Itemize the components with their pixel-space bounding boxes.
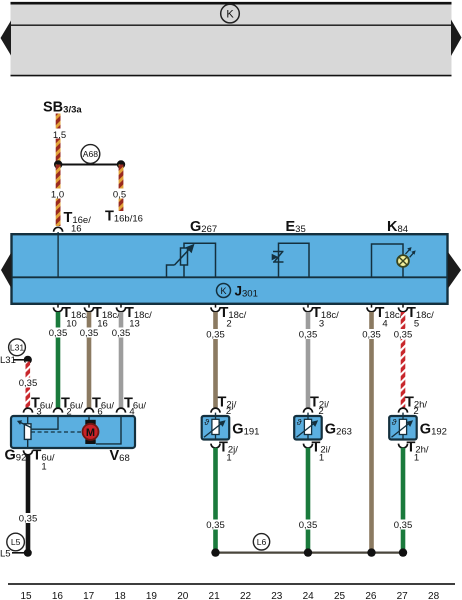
svg-text:0,35: 0,35: [299, 520, 318, 531]
svg-text:0,35: 0,35: [112, 328, 131, 339]
svg-text:ϑ: ϑ: [204, 417, 209, 427]
svg-text:0,35: 0,35: [206, 520, 225, 531]
svg-text:23: 23: [271, 591, 283, 600]
wire red/white L31 to T6u/3: [26, 362, 31, 409]
wire label 0,35 (track21): [205, 329, 227, 341]
svg-text:1: 1: [319, 453, 324, 464]
svg-text:L5: L5: [0, 549, 11, 560]
wire gray T18c/13 to T6u/4: [119, 312, 124, 408]
wire brown T18c/4 to bus L6: [369, 312, 374, 551]
connection L6: [253, 534, 269, 550]
svg-text:26: 26: [365, 591, 377, 600]
svg-text:22: 22: [240, 591, 252, 600]
svg-text:0,35: 0,35: [299, 330, 318, 341]
svg-text:0,35: 0,35: [206, 330, 225, 341]
junction dot right: [117, 160, 125, 168]
sensor G192: [389, 395, 447, 464]
connector arc at J301 top pin 16: [54, 227, 63, 232]
wire brown T18c/2 to G191: [213, 312, 218, 408]
svg-text:25: 25: [334, 591, 346, 600]
connector A68: [81, 145, 100, 164]
wire label 1,0: [49, 189, 66, 201]
right arrow (J301 band): [448, 252, 461, 289]
motor V68: [83, 420, 99, 444]
wire gray T18c/3 to G263: [306, 312, 311, 408]
track scale line: [8, 583, 455, 585]
svg-text:L5: L5: [11, 537, 21, 547]
wire black T6u/1 to L5: [26, 455, 31, 551]
svg-text:K: K: [226, 9, 234, 21]
pin T18c/13: [117, 304, 153, 330]
wire SB3/3a red/yellow: [56, 114, 61, 164]
pin T18c/10: [54, 304, 90, 330]
ECU band J301: [12, 234, 448, 304]
pin T18c/5: [399, 304, 435, 330]
node K (top band reference): [221, 4, 240, 23]
G267 wiper arrowhead: [186, 244, 195, 254]
wire label 0,35 (track16): [47, 328, 69, 340]
svg-text:20: 20: [177, 591, 189, 600]
svg-text:0,35: 0,35: [394, 330, 413, 341]
track numbers: [20, 591, 439, 600]
wire label 0,35 (track15 lower): [17, 513, 39, 525]
svg-text:M: M: [86, 427, 95, 439]
wire horizontal to A68: [58, 164, 121, 166]
wire label 0,35 (track24 lower): [297, 520, 319, 532]
pin T18c/3: [304, 304, 340, 330]
junction dot left: [54, 160, 62, 168]
warning lamp K84 symbol: [372, 244, 404, 277]
svg-text:L6: L6: [257, 537, 267, 547]
wire red/white T18c/5 to G192: [401, 312, 406, 408]
wire label 0,5: [111, 189, 128, 201]
wire label 0,35 (track27): [392, 329, 414, 341]
svg-text:ϑ: ϑ: [392, 417, 397, 427]
pin T6u/1 arc: [24, 450, 33, 455]
wire green G191 to L6: [213, 448, 218, 551]
potentiometer G267 symbol: [167, 243, 216, 277]
svg-text:0,35: 0,35: [394, 520, 413, 531]
sensor G191: [202, 395, 260, 464]
connection L31: [9, 339, 26, 356]
svg-text:A68: A68: [83, 149, 99, 159]
wire green G192 to L6: [401, 448, 406, 551]
svg-text:L31: L31: [10, 342, 25, 352]
wire brown T18c/16 to T6u/6: [87, 312, 92, 408]
wire stub L31 to junction: [13, 359, 25, 361]
junction dot L31: [24, 356, 32, 364]
svg-text:0,35: 0,35: [80, 328, 99, 339]
junction dot track26: [367, 548, 375, 556]
svg-text:0,35: 0,35: [49, 328, 68, 339]
wire stub L5: [12, 552, 25, 554]
svg-text:1: 1: [414, 453, 419, 464]
svg-text:27: 27: [397, 591, 409, 600]
svg-text:3: 3: [319, 319, 324, 330]
positioning motor unit V68 box: [11, 416, 135, 448]
wire label 0,35 (track24): [297, 329, 319, 341]
wire inside band from pin 16: [57, 232, 59, 277]
junction dot track21: [211, 548, 219, 556]
junction dot track27: [399, 548, 407, 556]
junction dot track24: [304, 548, 312, 556]
svg-text:21: 21: [209, 591, 221, 600]
svg-text:1,5: 1,5: [53, 130, 66, 141]
node K J301 label: [217, 283, 258, 299]
lamp K84: [397, 247, 416, 267]
wiper feed wire from T6u/2: [31, 416, 58, 429]
svg-text:24: 24: [303, 591, 315, 600]
svg-text:18: 18: [115, 591, 127, 600]
right arrow (top band): [451, 20, 462, 57]
left arrow (top band): [1, 21, 12, 56]
svg-text:17: 17: [83, 591, 95, 600]
potentiometer G92: [17, 416, 31, 448]
svg-text:ϑ: ϑ: [297, 417, 302, 427]
svg-text:1,0: 1,0: [51, 190, 64, 201]
wire label 0,35 (track26): [361, 329, 383, 341]
wire label 0,35 (track15 upper): [17, 378, 39, 390]
svg-text:0,35: 0,35: [19, 378, 38, 389]
svg-text:1: 1: [41, 462, 46, 473]
wire label 0,35 (track18): [110, 328, 132, 340]
svg-text:4: 4: [382, 319, 387, 330]
wire 1,0 red/yellow to T16e: [56, 165, 61, 227]
sensor E35 symbol: [279, 243, 310, 277]
wire green G263 to L6: [306, 448, 311, 551]
pin T18c/16: [85, 304, 121, 330]
svg-text:28: 28: [428, 591, 440, 600]
svg-text:0,5: 0,5: [113, 190, 126, 201]
ground L5: [7, 533, 25, 551]
wire label 0,35 (track27 lower): [392, 520, 414, 532]
connector arcs at V68 top: [24, 408, 33, 413]
pin T18c/4: [367, 304, 403, 330]
wire green T18c/10 to T6u/2: [56, 312, 61, 408]
wire label 1,5: [50, 129, 67, 142]
top harness band: [11, 2, 452, 76]
svg-text:15: 15: [20, 591, 32, 600]
wire label 0,35 (track17): [78, 328, 100, 340]
svg-text:19: 19: [146, 591, 158, 600]
svg-text:2: 2: [226, 319, 231, 330]
wire 0,5 red/yellow to T16b: [119, 165, 124, 212]
svg-text:1: 1: [226, 453, 231, 464]
pin T18c/2: [211, 304, 247, 330]
svg-text:K: K: [220, 286, 226, 296]
wire label 0,35 (track21 lower): [205, 520, 227, 532]
motor feed wires: [88, 416, 90, 421]
svg-text:16: 16: [52, 591, 64, 600]
svg-text:0,35: 0,35: [19, 514, 38, 525]
left arrow (J301 band): [1, 252, 12, 289]
sensor G263: [294, 395, 352, 464]
svg-text:16: 16: [71, 224, 82, 235]
mechanical link dashed: [31, 431, 81, 433]
svg-text:0,35: 0,35: [362, 330, 381, 341]
ground bus wire L6: [216, 551, 404, 553]
svg-text:5: 5: [414, 319, 419, 330]
junction dot L5: [24, 549, 32, 557]
